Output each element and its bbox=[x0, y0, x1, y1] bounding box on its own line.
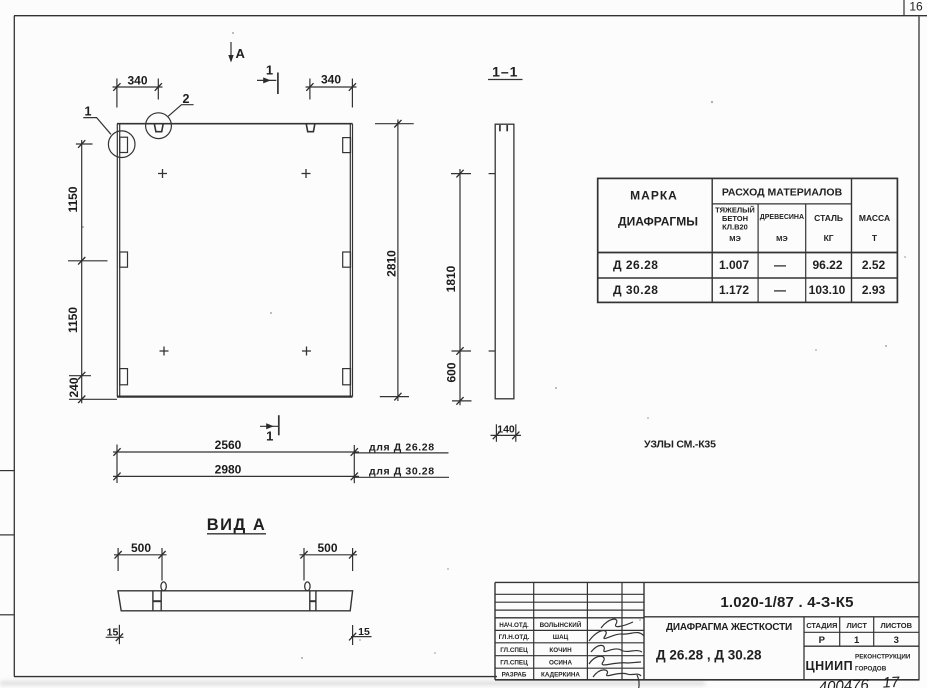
svg-text:500: 500 bbox=[317, 541, 337, 555]
svg-text:КЛ.В20: КЛ.В20 bbox=[722, 223, 748, 232]
svg-text:ВОЛЫНСКИЙ: ВОЛЫНСКИЙ bbox=[540, 620, 582, 629]
svg-text:ЦНИИП: ЦНИИП bbox=[806, 659, 854, 673]
svg-text:РАСХОД МАТЕРИАЛОВ: РАСХОД МАТЕРИАЛОВ bbox=[722, 186, 843, 198]
svg-text:1: 1 bbox=[266, 429, 273, 444]
svg-text:Д 30.28: Д 30.28 bbox=[613, 283, 658, 297]
svg-text:ГЛ.Н.ОТД.: ГЛ.Н.ОТД. bbox=[499, 634, 530, 641]
svg-text:ЛИСТОВ: ЛИСТОВ bbox=[881, 621, 913, 630]
svg-text:2560: 2560 bbox=[215, 438, 242, 452]
svg-text:РЕКОНСТРУКЦИИ: РЕКОНСТРУКЦИИ bbox=[855, 654, 911, 661]
svg-text:—: — bbox=[774, 258, 786, 272]
svg-text:140: 140 bbox=[497, 423, 515, 435]
svg-text:СТАЛЬ: СТАЛЬ bbox=[814, 213, 843, 223]
svg-text:600: 600 bbox=[445, 362, 459, 382]
svg-text:УЗЛЫ СМ.-К35: УЗЛЫ СМ.-К35 bbox=[644, 439, 716, 451]
svg-text:КГ: КГ bbox=[824, 233, 834, 243]
svg-text:17: 17 bbox=[882, 674, 900, 688]
svg-text:1.007: 1.007 bbox=[719, 258, 749, 272]
svg-text:КАДЕРКИНА: КАДЕРКИНА bbox=[541, 672, 580, 679]
svg-text:Д 26.28: Д 26.28 bbox=[613, 258, 658, 272]
svg-text:ГОРОДОВ: ГОРОДОВ bbox=[855, 666, 887, 673]
svg-text:1–1: 1–1 bbox=[492, 64, 518, 80]
svg-text:1.172: 1.172 bbox=[719, 283, 749, 297]
svg-text:1: 1 bbox=[266, 63, 273, 78]
svg-text:МАССА: МАССА bbox=[859, 213, 890, 223]
svg-text:500: 500 bbox=[131, 541, 151, 555]
svg-text:ГЛ.СПЕЦ: ГЛ.СПЕЦ bbox=[500, 660, 528, 667]
svg-text:А: А bbox=[236, 46, 246, 61]
svg-text:для Д 26.28: для Д 26.28 bbox=[369, 442, 435, 454]
svg-text:2: 2 bbox=[183, 92, 190, 106]
svg-text:1150: 1150 bbox=[66, 186, 80, 212]
svg-text:2980: 2980 bbox=[215, 463, 242, 477]
svg-text:1.020-1/87 . 4-З-К5: 1.020-1/87 . 4-З-К5 bbox=[720, 594, 853, 611]
svg-text:1: 1 bbox=[85, 105, 92, 119]
svg-text:МЭ: МЭ bbox=[776, 234, 788, 243]
svg-text:400476: 400476 bbox=[818, 676, 870, 688]
svg-text:2.93: 2.93 bbox=[862, 283, 886, 297]
svg-text:СТАДИЯ: СТАДИЯ bbox=[806, 621, 837, 630]
svg-text:для Д 30.28: для Д 30.28 bbox=[369, 466, 435, 478]
svg-text:—: — bbox=[774, 283, 786, 297]
svg-text:16: 16 bbox=[909, 0, 923, 14]
svg-text:МЭ: МЭ bbox=[729, 234, 741, 243]
svg-text:1810: 1810 bbox=[444, 265, 458, 292]
svg-text:РАЗРАБ: РАЗРАБ bbox=[502, 672, 527, 679]
svg-text:2810: 2810 bbox=[385, 250, 399, 277]
svg-text:МАРКА: МАРКА bbox=[630, 189, 678, 203]
svg-text:ЛИСТ: ЛИСТ bbox=[846, 621, 867, 630]
svg-text:ГЛ.СПЕЦ: ГЛ.СПЕЦ bbox=[500, 647, 528, 654]
svg-text:340: 340 bbox=[127, 73, 147, 87]
svg-text:15: 15 bbox=[107, 626, 119, 638]
svg-text:3: 3 bbox=[894, 635, 899, 646]
svg-text:ВИД А: ВИД А bbox=[207, 516, 267, 534]
svg-text:Р: Р bbox=[819, 635, 826, 646]
svg-text:103.10: 103.10 bbox=[809, 283, 846, 297]
svg-text:ДРЕВЕСИНА: ДРЕВЕСИНА bbox=[760, 214, 804, 221]
svg-text:1: 1 bbox=[854, 635, 860, 646]
svg-text:ШАЦ: ШАЦ bbox=[553, 634, 569, 641]
svg-text:96.22: 96.22 bbox=[812, 258, 842, 272]
svg-text:Д 26.28 , Д 30.28: Д 26.28 , Д 30.28 bbox=[656, 648, 762, 663]
svg-text:240: 240 bbox=[67, 377, 81, 397]
svg-text:ДИАФРАГМЫ: ДИАФРАГМЫ bbox=[618, 215, 698, 229]
svg-text:2.52: 2.52 bbox=[862, 258, 886, 272]
svg-text:Т: Т bbox=[872, 233, 878, 243]
svg-text:КОЧИН: КОЧИН bbox=[549, 647, 572, 654]
svg-text:ОСИНА: ОСИНА bbox=[549, 660, 573, 667]
svg-text:1150: 1150 bbox=[66, 307, 80, 333]
svg-text:340: 340 bbox=[321, 73, 341, 87]
svg-text:ДИАФРАГМА ЖЕСТКОСТИ: ДИАФРАГМА ЖЕСТКОСТИ bbox=[666, 622, 792, 633]
svg-text:НАЧ.ОТД.: НАЧ.ОТД. bbox=[499, 622, 529, 629]
svg-text:15: 15 bbox=[358, 626, 370, 638]
